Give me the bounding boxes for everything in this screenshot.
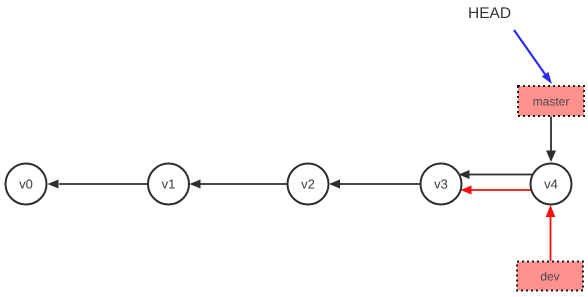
branch box master [518,86,584,116]
node v4 [531,164,572,205]
wire v1 to v0 [48,180,149,189]
wire v4 to v3 red [461,186,532,195]
svg-text:v3: v3 [434,177,448,192]
node v2 [288,164,329,205]
node v1 [148,164,189,205]
svg-text:v4: v4 [544,177,558,192]
wire v3 to v2 [329,180,421,189]
wire v2 to v1 [190,180,288,189]
svg-text:master: master [533,95,570,109]
node v3 [421,164,462,205]
wire dev to v4 red [546,205,556,261]
branch box dev [517,262,583,291]
node v0 [6,164,47,205]
svg-text:v1: v1 [162,177,176,192]
wire HEAD to master blue [514,30,552,84]
svg-text:HEAD: HEAD [468,5,511,22]
svg-text:dev: dev [540,270,559,284]
svg-text:v2: v2 [301,177,315,192]
svg-text:v0: v0 [19,177,33,192]
wire master to v4 [546,117,556,163]
wire v4 to v3 black [459,170,533,179]
